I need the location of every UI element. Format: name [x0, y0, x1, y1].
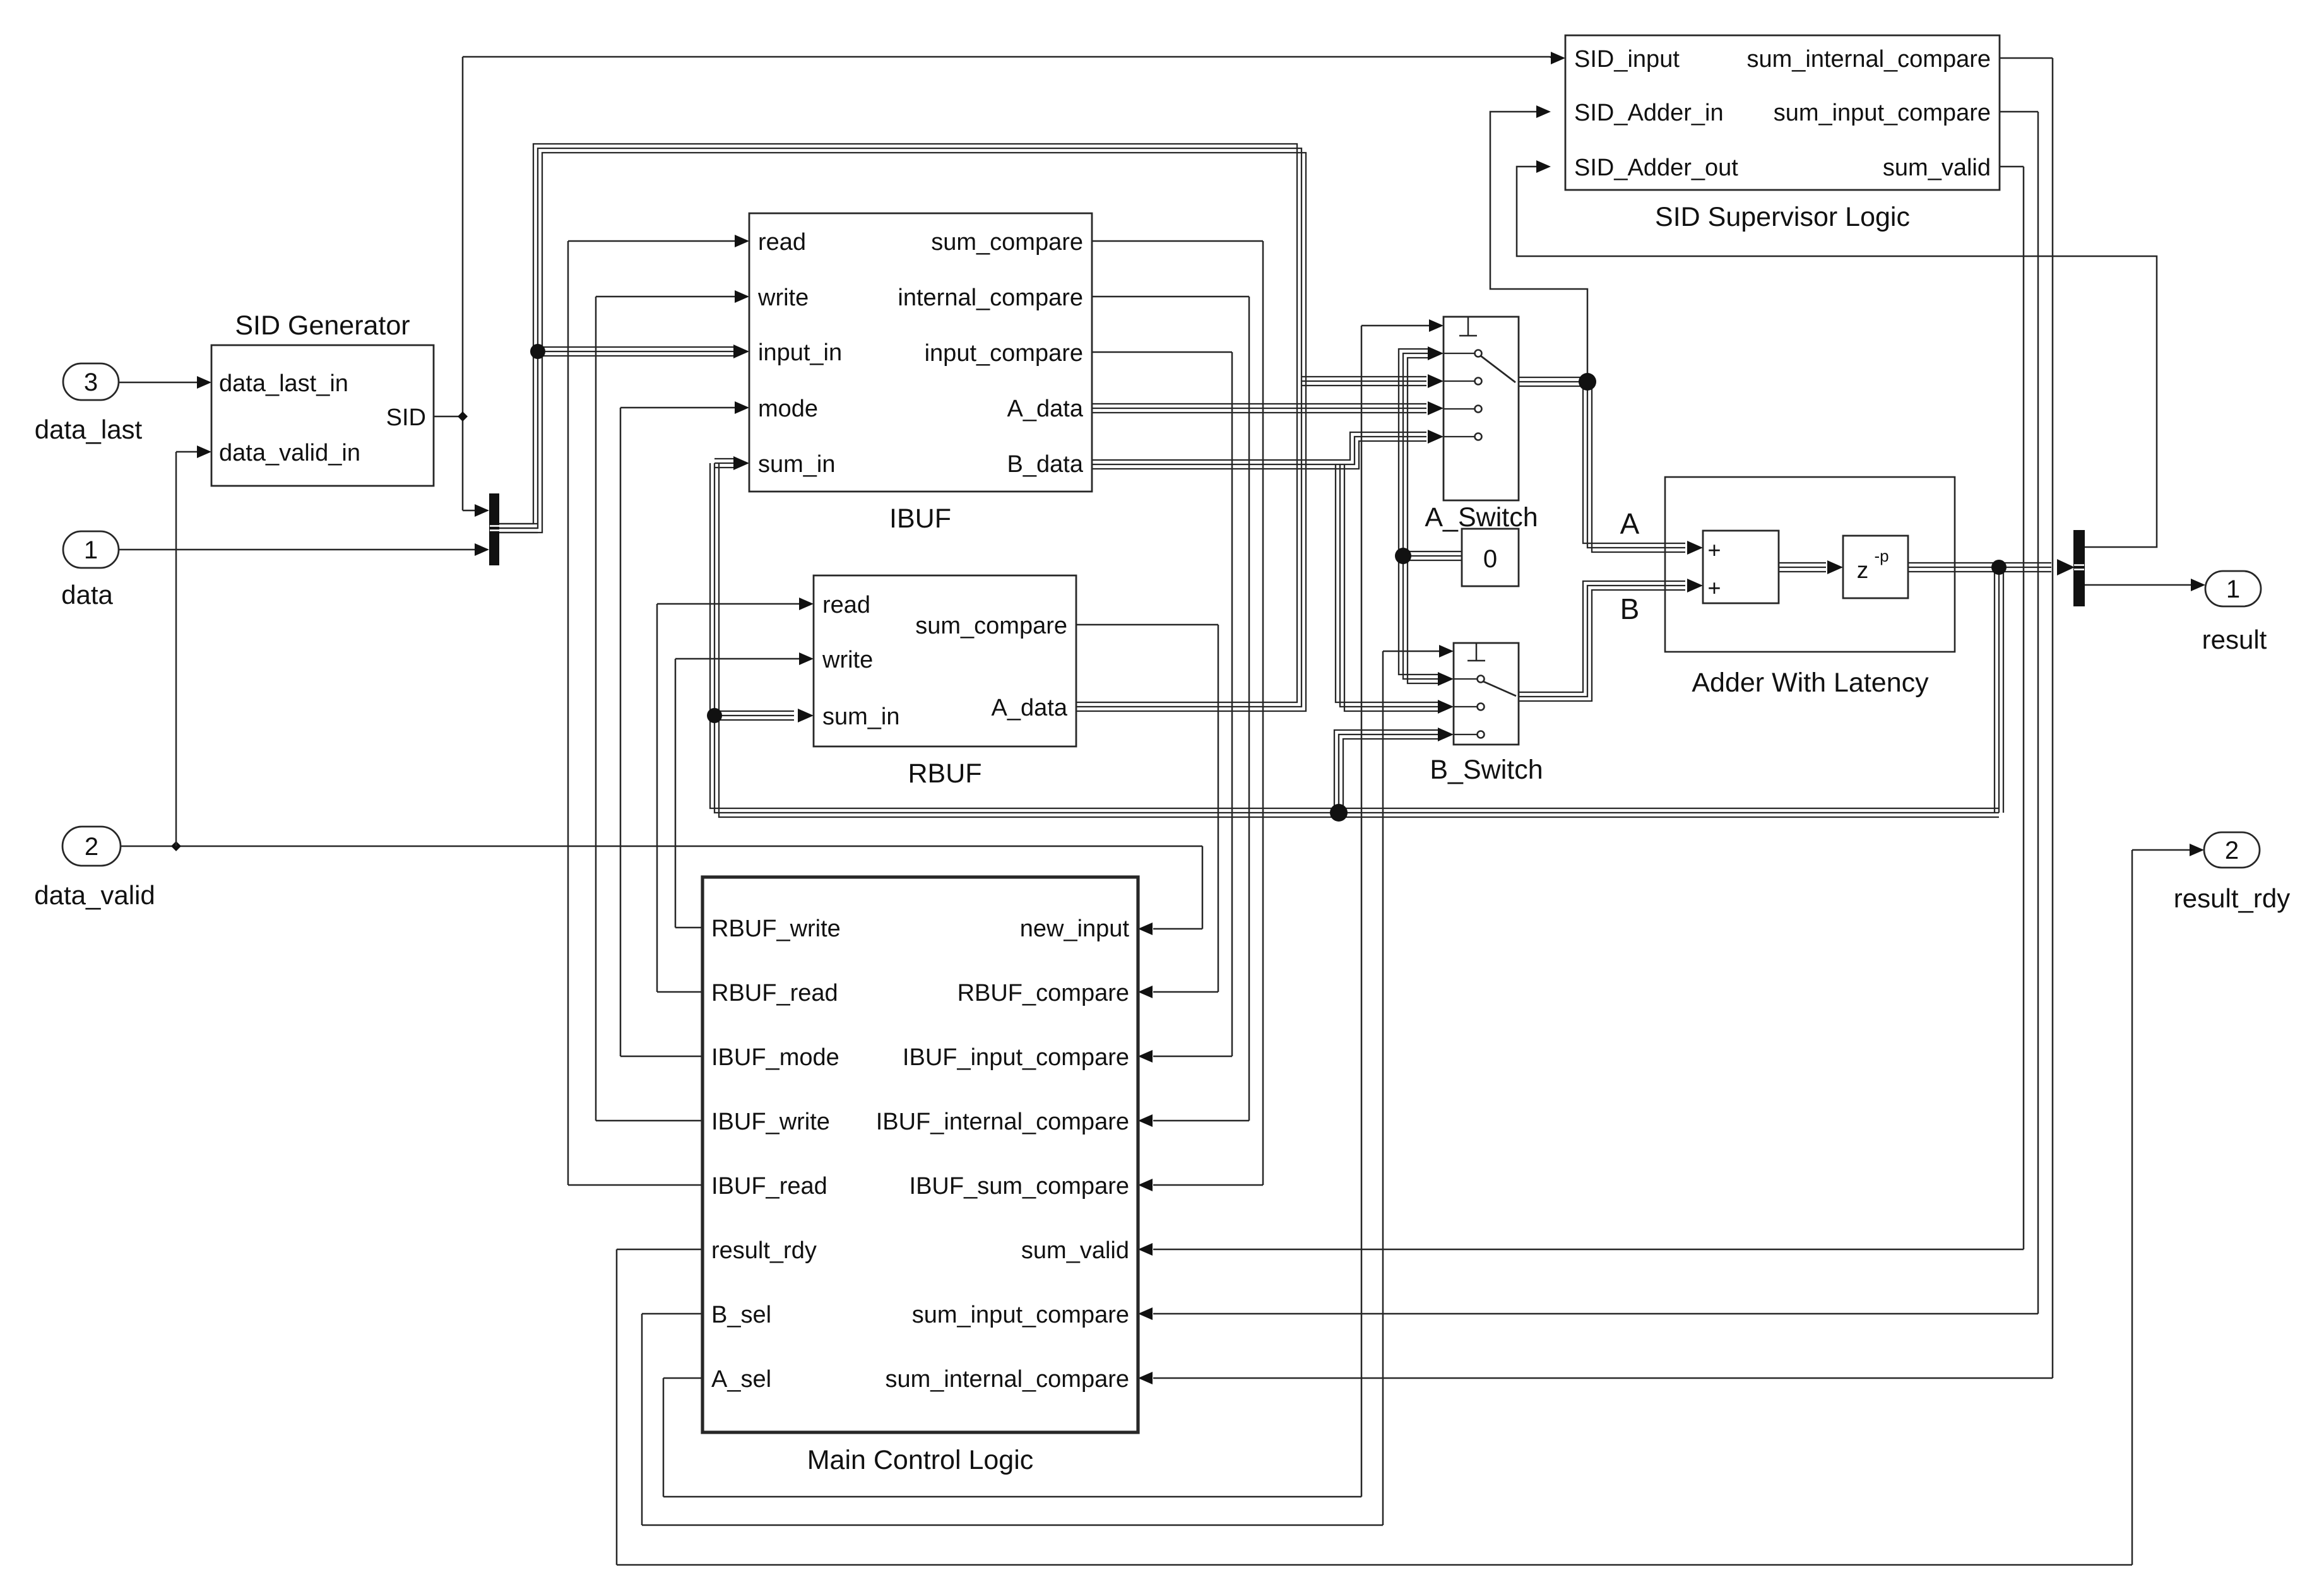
wire result_rdy route to result_rdy port — [617, 1249, 703, 1251]
svg-text:SID_input: SID_input — [1574, 46, 1680, 73]
demux input stripes — [2074, 564, 2084, 566]
svg-text:new_input: new_input — [1020, 916, 1130, 942]
block SID Generator — [211, 345, 434, 486]
svg-text:internal_compare: internal_compare — [898, 285, 1083, 311]
svg-text:+: + — [1707, 537, 1721, 563]
svg-text:B_Switch: B_Switch — [1430, 755, 1543, 785]
wire SID_Adder_in feedback from A node — [1490, 112, 1587, 380]
svg-text:A: A — [1620, 507, 1640, 540]
svg-text:data_last_in: data_last_in — [219, 370, 348, 397]
port oval 3 data_last — [63, 363, 119, 400]
B_Switch control tick — [1476, 643, 1478, 661]
block A_Switch — [1444, 317, 1519, 500]
wire sum_valid from SID Supervisor to Main Control — [2000, 166, 2024, 168]
svg-text:A_data: A_data — [1007, 396, 1084, 422]
wire IBUF mode from Main Control IBUF_mode — [620, 407, 735, 409]
svg-text:sum_input_compare: sum_input_compare — [912, 1302, 1129, 1328]
svg-text:data: data — [61, 580, 113, 610]
port oval 1 result — [2205, 571, 2261, 606]
svg-text:1: 1 — [84, 536, 98, 564]
mux Mux1 bar — [489, 493, 499, 565]
svg-text:RBUF_write: RBUF_write — [711, 916, 841, 942]
wire IBUF sum_compare to IBUF_sum_compare — [1092, 240, 1263, 242]
block sum — [1703, 531, 1779, 603]
svg-text:SID: SID — [386, 404, 426, 431]
wire RBUF write from Main Control RBUF_write — [675, 658, 799, 660]
svg-text:IBUF_sum_compare: IBUF_sum_compare — [910, 1173, 1129, 1200]
bus IBUF B_data branch to B_Switch input 2 — [1336, 464, 1438, 702]
bus branch to RBUF sum_in — [714, 710, 794, 712]
wire IBUF read from Main Control IBUF_read — [568, 240, 735, 242]
svg-text:write: write — [757, 285, 809, 311]
bus adder output to delay — [1779, 562, 1826, 563]
svg-text:z: z — [1857, 557, 1869, 583]
svg-text:data_valid_in: data_valid_in — [219, 440, 360, 466]
svg-text:sum_valid: sum_valid — [1021, 1237, 1129, 1264]
svg-text:2: 2 — [2225, 837, 2239, 864]
wire SID down to Mux1 input 1 — [462, 416, 464, 510]
node junction delay output — [1991, 560, 2007, 575]
svg-text:B_sel: B_sel — [711, 1302, 771, 1328]
svg-text:Adder With Latency: Adder With Latency — [1692, 668, 1929, 698]
svg-text:0: 0 — [1483, 545, 1497, 573]
A_Switch control tick — [1467, 317, 1469, 336]
svg-text:SID Supervisor Logic: SID Supervisor Logic — [1655, 202, 1910, 232]
wire SID_Adder_out feedback from result demux — [1517, 167, 2157, 547]
node junction constant 0 — [1395, 548, 1411, 564]
bus feedback vertical from adder output — [1994, 567, 1995, 813]
A_Switch arm — [1481, 356, 1515, 382]
bus B_Switch output to adder input B — [1519, 581, 1685, 692]
demux result bar — [2073, 530, 2085, 606]
svg-text:mode: mode — [758, 396, 818, 422]
svg-text:input_compare: input_compare — [925, 340, 1083, 367]
port oval 1 data — [63, 531, 119, 568]
bus sum feedback into IBUF sum_in — [710, 463, 1999, 808]
node data_valid branch diamond — [171, 841, 181, 851]
wire IBUF internal_compare to IBUF_internal_compare — [1092, 296, 1249, 298]
svg-text:SID Generator: SID Generator — [235, 310, 410, 341]
svg-text:read: read — [822, 592, 870, 618]
wire data port to Mux1 input 2 — [119, 549, 475, 551]
A_Switch contacts — [1444, 353, 1474, 354]
wire RBUF read from Main Control RBUF_read — [657, 603, 799, 605]
wire RBUF sum_compare to RBUF_compare — [1076, 624, 1218, 626]
bus delay output to result demux — [1908, 562, 2051, 563]
svg-text:IBUF_read: IBUF_read — [711, 1173, 827, 1200]
svg-text:B: B — [1620, 592, 1640, 625]
svg-text:input_in: input_in — [758, 339, 842, 366]
svg-text:RBUF_compare: RBUF_compare — [957, 980, 1129, 1006]
port oval 2 result_rdy — [2204, 832, 2260, 868]
svg-text:B_data: B_data — [1007, 451, 1084, 478]
svg-text:Main Control Logic: Main Control Logic — [807, 1445, 1034, 1475]
bus constant 0 to switch inputs — [1399, 349, 1438, 675]
bus Mux1 output up and across the top — [499, 144, 1297, 702]
wire A_sel route to A_Switch control — [663, 1377, 703, 1379]
bus IBUF A_data to A_Switch input 3 — [1092, 403, 1426, 404]
svg-text:result_rdy: result_rdy — [711, 1237, 817, 1264]
svg-text:sum_internal_compare: sum_internal_compare — [885, 1366, 1129, 1393]
wire IBUF write from Main Control IBUF_write — [596, 296, 735, 298]
port oval 2 data_valid — [62, 827, 121, 866]
svg-text:IBUF_mode: IBUF_mode — [711, 1044, 839, 1071]
block SID Supervisor Logic — [1565, 35, 2000, 190]
svg-text:2: 2 — [85, 833, 98, 861]
block constant 0 — [1462, 529, 1519, 586]
wire SID_input long horizontal to SID Supervisor — [463, 56, 1551, 58]
block delay z^-p — [1843, 536, 1908, 598]
block B_Switch — [1454, 643, 1519, 745]
svg-text:A_sel: A_sel — [711, 1366, 771, 1393]
node junction feedback to B_Switch — [1330, 804, 1348, 822]
wire data_valid to new_input — [1202, 846, 1204, 929]
wire IBUF input_compare to IBUF_input_compare — [1092, 351, 1232, 353]
wire SID vertical up to SID_input line — [462, 57, 464, 416]
svg-text:sum_compare: sum_compare — [931, 229, 1083, 256]
bus feedback branch to B_Switch input 3 — [1334, 730, 1438, 813]
wire sum_internal_compare from SID Supervisor to Main Control — [2000, 57, 2053, 59]
node SID branch diamond — [458, 411, 468, 422]
wire sum_input_compare from SID Supervisor to Main Control — [2000, 111, 2038, 113]
svg-text:sum_valid: sum_valid — [1883, 155, 1991, 181]
node junction sum_in — [707, 708, 722, 723]
svg-text:write: write — [822, 647, 873, 673]
svg-text:result: result — [2202, 625, 2267, 654]
svg-text:-p: -p — [1874, 546, 1888, 565]
svg-text:sum_input_compare: sum_input_compare — [1774, 100, 1991, 126]
B_Switch contacts — [1454, 678, 1477, 680]
svg-text:data_valid: data_valid — [34, 880, 155, 910]
svg-text:IBUF_input_compare: IBUF_input_compare — [903, 1044, 1129, 1071]
svg-text:IBUF_internal_compare: IBUF_internal_compare — [876, 1109, 1129, 1135]
wire B_sel route to B_Switch control — [642, 1313, 703, 1315]
svg-text:RBUF_read: RBUF_read — [711, 980, 838, 1006]
bus A_Switch output to adder input A — [1519, 377, 1685, 543]
svg-text:sum_in: sum_in — [758, 451, 836, 478]
svg-text:result_rdy: result_rdy — [2174, 883, 2290, 913]
svg-text:+: + — [1707, 575, 1721, 601]
wire SID output to branch junction — [434, 416, 463, 418]
mux Mux1 output stripes — [490, 525, 499, 527]
svg-text:data_last: data_last — [35, 415, 143, 444]
block Main Control Logic — [703, 877, 1138, 1432]
svg-text:sum_in: sum_in — [822, 704, 900, 730]
svg-text:IBUF: IBUF — [889, 504, 951, 534]
svg-text:read: read — [758, 229, 806, 256]
svg-text:sum_compare: sum_compare — [915, 613, 1067, 639]
svg-text:SID_Adder_out: SID_Adder_out — [1574, 155, 1738, 181]
node junction input bus — [530, 344, 545, 359]
block RBUF — [814, 575, 1076, 746]
wire data_valid horizontal — [121, 846, 1202, 847]
bus IBUF B_data to A_Switch input 4 — [1092, 432, 1426, 460]
svg-text:3: 3 — [84, 368, 98, 396]
wire data_last port to data_last_in — [119, 382, 197, 384]
svg-text:RBUF: RBUF — [908, 758, 981, 789]
svg-text:1: 1 — [2226, 575, 2240, 603]
svg-text:SID_Adder_in: SID_Adder_in — [1574, 100, 1724, 126]
svg-text:A_data: A_data — [992, 695, 1068, 721]
svg-text:IBUF_write: IBUF_write — [711, 1109, 830, 1135]
block IBUF — [749, 213, 1092, 492]
bus branch to A_Switch input 2 — [1301, 376, 1426, 377]
svg-text:sum_internal_compare: sum_internal_compare — [1746, 46, 1991, 73]
wire data_valid up to data_valid_in — [175, 452, 177, 846]
node junction A — [1579, 373, 1596, 391]
block Adder With Latency container — [1665, 477, 1955, 652]
bus branch to IBUF input_in — [538, 346, 733, 348]
wire result from demux to result port — [2085, 584, 2191, 586]
B_Switch arm — [1483, 681, 1516, 696]
